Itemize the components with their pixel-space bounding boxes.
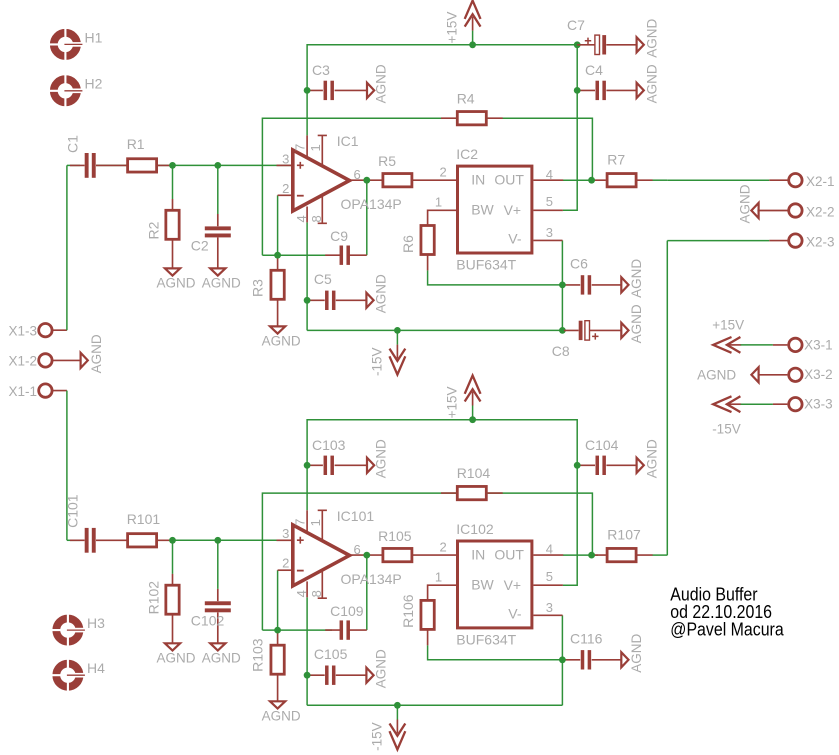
svg-text:X3-2: X3-2 [804, 367, 833, 382]
svg-text:AGND: AGND [645, 19, 660, 58]
svg-text:R2: R2 [146, 221, 162, 239]
svg-text:R5: R5 [378, 153, 396, 169]
svg-text:C7: C7 [567, 17, 585, 33]
svg-text:C116: C116 [570, 630, 603, 646]
svg-text:IC101: IC101 [337, 508, 375, 524]
svg-text:C1: C1 [65, 135, 81, 153]
svg-text:C4: C4 [585, 62, 603, 78]
svg-text:C103: C103 [312, 437, 346, 453]
svg-text:R104: R104 [457, 465, 491, 481]
svg-text:C2: C2 [191, 238, 209, 254]
svg-text:+15V: +15V [444, 12, 459, 44]
svg-text:AGND: AGND [629, 304, 644, 343]
svg-text:X2-1: X2-1 [806, 174, 835, 189]
svg-text:H4: H4 [87, 660, 105, 676]
svg-text:H2: H2 [85, 76, 103, 92]
svg-text:AGND: AGND [156, 276, 195, 291]
svg-text:7: 7 [293, 144, 308, 151]
svg-text:4: 4 [294, 215, 309, 222]
svg-text:3: 3 [282, 151, 289, 166]
svg-text:AGND: AGND [737, 184, 752, 223]
svg-text:R102: R102 [146, 581, 162, 615]
svg-text:AGND: AGND [202, 276, 241, 291]
svg-text:R101: R101 [127, 511, 161, 527]
svg-text:IC2: IC2 [456, 146, 478, 162]
svg-text:AGND: AGND [697, 368, 736, 383]
svg-text:R1: R1 [127, 136, 145, 152]
svg-text:V+: V+ [504, 202, 522, 218]
svg-text:6: 6 [354, 167, 361, 182]
svg-text:1: 1 [308, 144, 323, 151]
svg-text:4: 4 [546, 167, 553, 182]
svg-text:2: 2 [440, 164, 447, 179]
svg-text:H3: H3 [87, 615, 105, 631]
svg-text:-15V: -15V [369, 347, 384, 376]
svg-text:OUT: OUT [494, 172, 524, 188]
svg-text:R7: R7 [607, 152, 625, 168]
svg-text:R106: R106 [400, 594, 416, 628]
svg-text:+15V: +15V [712, 317, 744, 332]
svg-text:OPA134P: OPA134P [341, 571, 402, 587]
svg-text:X1-1: X1-1 [9, 384, 38, 399]
svg-text:@Pavel Macura: @Pavel Macura [670, 618, 784, 639]
svg-text:C5: C5 [314, 271, 332, 287]
svg-text:X1-3: X1-3 [9, 324, 38, 339]
svg-text:8: 8 [309, 215, 324, 222]
svg-text:IC102: IC102 [456, 521, 494, 537]
svg-text:3: 3 [546, 225, 553, 240]
svg-text:C9: C9 [330, 228, 348, 244]
svg-text:1: 1 [435, 194, 442, 209]
svg-text:C102: C102 [191, 613, 225, 629]
svg-text:AGND: AGND [262, 334, 301, 349]
svg-text:OPA134P: OPA134P [341, 196, 402, 212]
svg-text:-15V: -15V [712, 422, 741, 437]
svg-text:BUF634T: BUF634T [456, 631, 516, 647]
svg-text:C109: C109 [330, 603, 364, 619]
svg-text:X3-1: X3-1 [804, 337, 833, 352]
svg-text:X2-2: X2-2 [806, 204, 835, 219]
svg-text:5: 5 [546, 194, 553, 209]
svg-text:R105: R105 [378, 528, 412, 544]
svg-text:BUF634T: BUF634T [456, 257, 516, 273]
svg-text:C104: C104 [585, 437, 619, 453]
svg-text:R103: R103 [250, 638, 266, 672]
svg-text:AGND: AGND [374, 274, 389, 313]
svg-text:R107: R107 [607, 526, 641, 542]
svg-text:C105: C105 [314, 646, 348, 662]
svg-text:C8: C8 [552, 343, 570, 359]
svg-text:C6: C6 [570, 256, 588, 272]
svg-text:IC1: IC1 [337, 133, 359, 149]
svg-text:R4: R4 [457, 90, 475, 106]
svg-text:BW: BW [471, 202, 494, 218]
svg-text:R3: R3 [250, 279, 266, 297]
svg-text:AGND: AGND [645, 64, 660, 103]
svg-text:C3: C3 [312, 62, 330, 78]
svg-text:R6: R6 [400, 235, 416, 253]
svg-text:IN: IN [471, 172, 485, 188]
svg-text:V-: V- [508, 231, 522, 247]
svg-text:AGND: AGND [373, 64, 388, 103]
svg-text:2: 2 [282, 181, 289, 196]
svg-text:C101: C101 [65, 494, 81, 528]
svg-text:X3-3: X3-3 [804, 397, 833, 412]
svg-text:H1: H1 [85, 29, 103, 45]
svg-text:AGND: AGND [89, 334, 104, 373]
svg-text:X2-3: X2-3 [806, 234, 835, 249]
svg-text:AGND: AGND [629, 259, 644, 298]
svg-text:X1-2: X1-2 [9, 354, 38, 369]
